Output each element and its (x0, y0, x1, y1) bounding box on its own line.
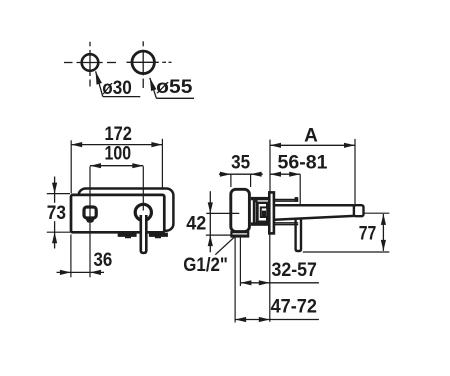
svg-text:77: 77 (359, 224, 377, 245)
extension line 47-72 left (234, 237, 236, 323)
handle lever (front) (141, 215, 147, 253)
leader line ø30 (96, 71, 103, 96)
svg-text:36: 36 (94, 250, 113, 271)
centerline through handle (142, 166, 144, 210)
hole circle ø30 (small hole) (82, 54, 99, 71)
dimension 32-57 line (240, 282, 319, 284)
svg-text:73: 73 (47, 203, 66, 224)
wall face extension line (269, 234, 271, 322)
spout tip cap (354, 205, 364, 216)
leader line G1/2 (215, 236, 235, 254)
spout top edge (274, 204, 354, 207)
in-wall mixer body (side) (231, 189, 250, 231)
handle lever (side) (296, 218, 301, 252)
dimension 77 line (382, 214, 384, 251)
svg-text:56-81: 56-81 (278, 152, 328, 173)
mounting collar piece 1 (254, 201, 257, 223)
svg-text:35: 35 (231, 152, 250, 173)
svg-text:A: A (304, 125, 318, 146)
right mounting tab below plate (149, 233, 168, 239)
extension lines 35 (230, 174, 232, 187)
vertical centerline large hole (142, 41, 144, 46)
dimension 36 line (57, 271, 105, 273)
svg-text:ø30: ø30 (102, 78, 132, 99)
dimension 100 line (90, 165, 143, 167)
dimension 47-72 line (235, 319, 319, 321)
mounting collar inner step (261, 207, 267, 217)
lower mounting rod (274, 222, 298, 224)
dimension 56-81 line (270, 173, 300, 175)
left mounting tab below plate (118, 233, 137, 239)
front wall plate (71, 195, 164, 232)
svg-text:100: 100 (105, 144, 132, 165)
spout outlet (front) (84, 207, 96, 218)
upper mounting rod left band (251, 197, 271, 200)
mounting collar center block (262, 211, 266, 217)
extension lines 172 (70, 140, 72, 193)
extension lines 73 (47, 193, 70, 195)
G1/2 connection nipple (231, 232, 248, 236)
lower mounting rod left band (251, 222, 271, 225)
dimension A line (270, 144, 355, 146)
escutcheon wall plate (side) (269, 192, 274, 233)
horizontal centerline through holes (64, 62, 73, 64)
svg-text:32-57: 32-57 (271, 260, 317, 281)
mounting collar piece 2 (258, 203, 268, 222)
handle rosette circle (front) (135, 204, 151, 220)
lever top mark (295, 197, 299, 202)
mixer body behind plate (rounded outline) (79, 189, 174, 231)
centerline through spout (89, 166, 91, 277)
hole circle ø55 (large hole) (132, 51, 154, 73)
extension line 56-81 (lever) (299, 174, 301, 204)
svg-text:172: 172 (105, 124, 132, 145)
svg-text:ø55: ø55 (156, 77, 193, 98)
spout bottom edge (274, 216, 354, 220)
extension lines 77 (364, 212, 389, 214)
leader line ø55 (150, 78, 157, 99)
extension lines 42 (206, 212, 239, 214)
extension line 32-57 left (239, 237, 241, 286)
svg-text:47-72: 47-72 (271, 296, 317, 317)
extension lines A (269, 140, 271, 192)
svg-text:G1/2": G1/2" (183, 255, 228, 276)
upper mounting rod (274, 199, 298, 201)
vertical centerline small hole (89, 42, 91, 47)
extension line 36 (plate edge) (70, 235, 72, 278)
dimension 73 line (54, 177, 56, 203)
dimension 42 line (209, 191, 211, 252)
dimension 172 line (71, 144, 162, 146)
dimension 35 line (219, 173, 263, 175)
svg-text:42: 42 (186, 213, 206, 234)
